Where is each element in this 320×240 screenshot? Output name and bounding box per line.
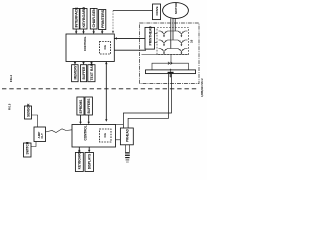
zigzag wire amp to CPU2 <box>46 129 73 133</box>
top input box T3 <box>90 8 97 29</box>
wire tap down into controller <box>112 11 114 34</box>
wire CPU2 to D1b <box>78 147 80 153</box>
top input box T1 <box>73 7 79 29</box>
head lower stubs <box>126 145 130 152</box>
svg-text:4,858,624 Sht 2: 4,858,624 Sht 2 <box>200 78 204 97</box>
svg-text:MEMORY: MEMORY <box>73 64 77 79</box>
svg-text:16: 16 <box>190 39 194 43</box>
svg-text:MOTOR: MOTOR <box>174 2 178 14</box>
svg-text:PRINTHEAD: PRINTHEAD <box>148 26 152 46</box>
array row wire 3 <box>159 48 188 50</box>
amp mid box <box>34 127 46 142</box>
svg-text:KEYBOARD: KEYBOARD <box>78 151 82 170</box>
wire B to amp <box>31 142 36 147</box>
wire U2b down <box>88 115 90 124</box>
svg-text:SWITCH: SWITCH <box>26 141 30 154</box>
connector CPU2-head lower <box>116 139 121 141</box>
wire U1 to TB upper <box>114 37 145 39</box>
wire T3 to controller <box>93 29 95 34</box>
common bus wire <box>142 54 189 56</box>
svg-text:BUFFERS: BUFFERS <box>87 98 91 114</box>
svg-text:EPROMS: EPROMS <box>79 99 83 114</box>
top input box T2 <box>80 7 87 29</box>
wire U1 to L1 <box>74 62 76 65</box>
upper box U2b <box>85 97 92 115</box>
wire platen to head inner <box>128 74 168 128</box>
svg-text:CG: CG <box>103 132 107 137</box>
svg-text:BUFFER: BUFFER <box>82 66 86 79</box>
wire TB to array row stubs <box>155 34 158 43</box>
CPU2 box <box>72 125 116 148</box>
motor wires through array <box>171 23 175 49</box>
thyristor pair row3 right <box>178 49 185 55</box>
right edge patent text <box>200 78 204 97</box>
sensor box B <box>24 141 32 157</box>
wire CPU2 to D2b <box>88 147 90 153</box>
thyristor pair row1 left <box>161 31 168 37</box>
wire U1 to TB lower <box>114 49 146 51</box>
bus stub to strobe line <box>170 55 172 64</box>
thyristor pair row2 right <box>178 40 185 46</box>
top input box T4 <box>99 9 106 29</box>
upper box U1b <box>77 97 84 115</box>
array row wire 2 <box>159 39 188 41</box>
svg-text:CG: CG <box>103 44 107 49</box>
thyristor pair row1 right <box>178 31 185 37</box>
connector CPU2-head upper <box>116 123 124 125</box>
svg-text:FIG.5: FIG.5 <box>8 103 11 110</box>
wire U1 to L3 <box>90 62 92 65</box>
page divider dashed line <box>2 88 199 90</box>
array dashed box <box>157 28 189 55</box>
dashed sub-box inside controller <box>100 42 111 55</box>
svg-text:FIG.4: FIG.4 <box>9 75 13 82</box>
lower box L1 <box>72 64 79 81</box>
array row wire 1 <box>159 30 188 32</box>
encoder box E <box>153 4 161 20</box>
motor M1 (ellipse) <box>163 2 189 18</box>
motor leads <box>171 18 175 23</box>
bar center mark <box>168 69 174 74</box>
svg-text:DRIVE: DRIVE <box>155 6 159 15</box>
head data box TB <box>145 26 155 49</box>
lower box L2 <box>81 65 87 82</box>
diode D1 on strobe line <box>168 62 172 65</box>
wire A to amp <box>32 115 38 127</box>
thyristor pair row2 left <box>161 40 168 46</box>
below-bar pinch mark <box>169 74 172 78</box>
printer assembly outer box (dash-dot) <box>140 23 200 84</box>
svg-text:TEXT RAM: TEXT RAM <box>90 63 94 80</box>
wire T2 to controller <box>82 29 84 34</box>
lower box L3 <box>88 63 95 81</box>
sensor box A <box>25 103 32 119</box>
thyristor pair row3 left <box>161 49 168 55</box>
svg-text:INTERFACE: INTERFACE <box>75 7 79 28</box>
wire platen to head outer <box>123 74 171 128</box>
wire U1b down <box>79 115 81 124</box>
svg-text:PRHEAD: PRHEAD <box>125 128 129 142</box>
svg-text:KEYBOARD: KEYBOARD <box>82 7 86 28</box>
svg-text:CONTROL: CONTROL <box>83 36 87 51</box>
svg-text:FLT: FLT <box>40 133 44 139</box>
dashed sub-box inside CPU2 <box>100 129 112 142</box>
label 16 <box>190 39 194 43</box>
below box D2b <box>85 153 94 172</box>
bidirectional wire U1 to U2 <box>105 62 107 122</box>
label FIG top <box>9 75 13 82</box>
wire T1 to controller <box>75 29 77 34</box>
svg-text:CHAR.GEN: CHAR.GEN <box>92 8 96 27</box>
svg-text:PRINTERS: PRINTERS <box>101 9 105 28</box>
svg-text:SENSOR: SENSOR <box>26 103 30 117</box>
wire E to vertical tap <box>113 10 153 12</box>
svg-text:DISPLAYS: DISPLAYS <box>87 153 91 169</box>
label FIG bottom <box>8 103 11 110</box>
svg-text:CONTROL: CONTROL <box>84 125 88 140</box>
head box H <box>120 128 133 145</box>
wire U1 to L2 <box>82 62 84 65</box>
controller box U1 <box>66 34 114 62</box>
wire T4 to controller <box>101 30 103 35</box>
ribbon hatched element <box>125 152 130 162</box>
strobe bracket wire <box>152 63 188 70</box>
platen bar <box>146 70 196 74</box>
below box D1b <box>75 151 83 172</box>
